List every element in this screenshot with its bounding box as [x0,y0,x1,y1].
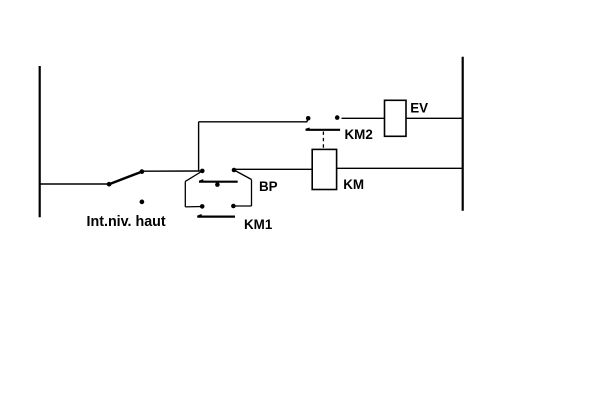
svg-text:BP: BP [259,179,278,194]
node: KM2 right terminal [335,115,340,120]
wire: BP right vertical [251,180,253,207]
svg-text:EV: EV [410,100,428,115]
contact KM2 (bar with barb) [306,128,341,130]
right rail L2 [462,57,464,211]
contact BP (bar with barb and button dot) [199,180,238,187]
node: KM2 left terminal [306,116,311,121]
contact KM1 (bar with barb) [197,215,235,217]
svg-text:KM2: KM2 [345,127,373,142]
svg-text:Int.niv. haut: Int.niv. haut [87,214,166,230]
svg-text:KM1: KM1 [244,217,273,232]
wire: BP left slant [185,171,202,181]
wire: left rail to switch [40,183,109,185]
wire: BP bottom-right horizontal [233,205,251,207]
wire: BP block to KM coil [234,168,312,170]
wire: vertical branch up [198,122,200,171]
left rail L1 [39,66,41,217]
svg-text:KM: KM [343,177,364,192]
switch Int.niv. haut [107,169,144,204]
wire: BP bottom-left horizontal [185,206,202,208]
wire: BP left vertical [184,181,186,207]
node: BP top-right terminal [232,168,237,173]
node: KM1 bottom-right terminal [231,204,236,209]
wire: BP right slant [234,170,252,180]
node: BP top-left terminal [200,169,205,174]
wire: top horizontal to KM2 [199,118,309,121]
wire: KM coil to right rail [337,167,463,169]
wire: switch to BP block [142,170,202,172]
coil EV [385,100,407,136]
coil KM [312,149,336,189]
node: KM1 bottom-left terminal [200,204,205,209]
wire: KM2 to EV coil [342,117,385,119]
dashed link KM2 to KM coil [322,132,324,149]
wire: EV coil to right rail [406,117,463,119]
